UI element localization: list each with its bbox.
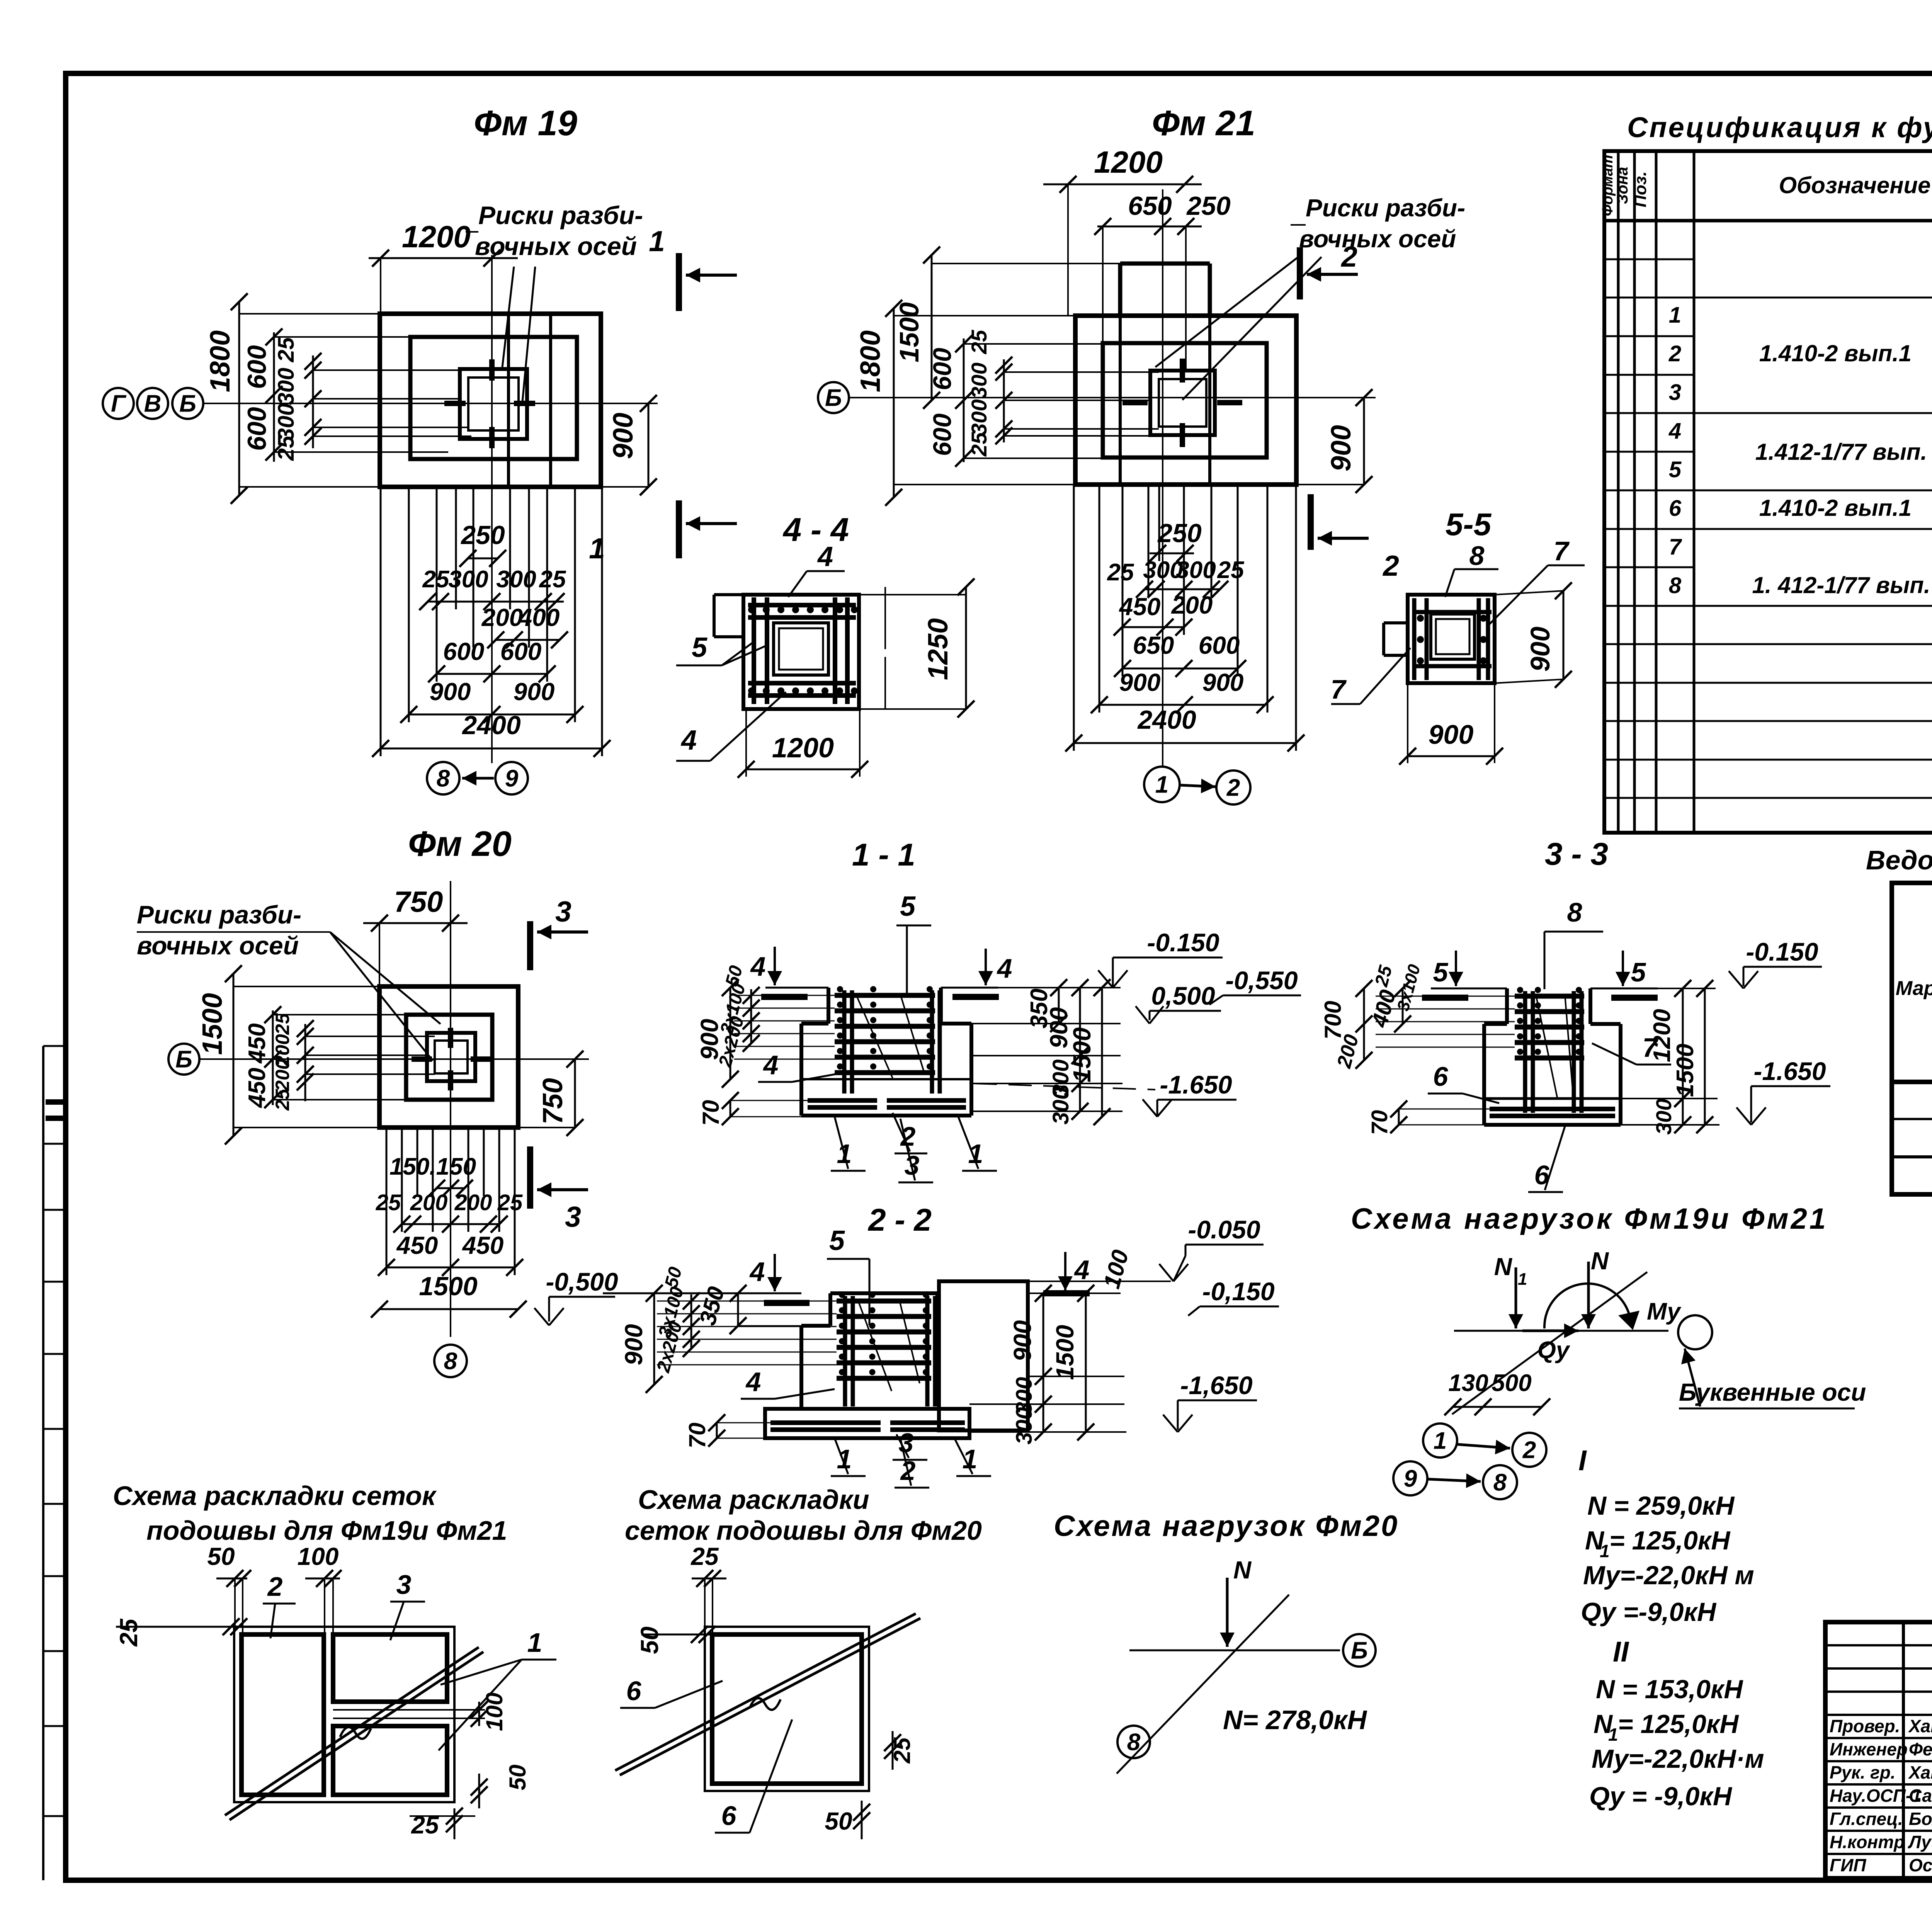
svg-text:600: 600	[500, 638, 542, 665]
Fm21 dim 25 300 300 25 chain left	[1003, 359, 1005, 442]
3-3 mesh extension lines left	[1376, 996, 1515, 997]
svg-text:25: 25	[539, 566, 566, 593]
steel table outer	[1892, 883, 1932, 1194]
Fm20 section flag 3 top	[527, 921, 533, 970]
2-2 right dim 1500	[1085, 1293, 1087, 1432]
svg-text:Г: Г	[111, 391, 127, 417]
svg-text:600: 600	[443, 638, 485, 665]
Fm19 lower extension lines	[380, 487, 382, 756]
svg-text:Инженер: Инженер	[1830, 1739, 1908, 1759]
3-3 ground line right	[1590, 988, 1658, 990]
svg-text:450: 450	[1119, 593, 1161, 621]
Fm20 dim 1500	[379, 1308, 518, 1310]
svg-text:Qy: Qy	[1537, 1337, 1571, 1364]
svg-text:1: 1	[1669, 303, 1681, 328]
svg-text:300: 300	[967, 362, 991, 398]
svg-text:Бояриченко: Бояриченко	[1909, 1809, 1932, 1829]
svg-text:4: 4	[750, 951, 766, 981]
Fm20 column square inner	[435, 1041, 468, 1073]
svg-text:300: 300	[496, 566, 536, 593]
svg-text:Луценко: Луценко	[1908, 1832, 1932, 1852]
svg-text:-0.150: -0.150	[1147, 928, 1219, 957]
3-3 right dim 300 1500	[1682, 1099, 1684, 1125]
Fm21 pedestal protrusion rect	[1120, 262, 1210, 266]
svg-text:Б: Б	[175, 1046, 192, 1073]
Fm19 axis bubbles	[103, 388, 134, 419]
Fm20 dim 450 450	[386, 1267, 515, 1269]
Fm19 step vertical lines	[507, 314, 510, 487]
Fm21 view circles 1 2	[1144, 767, 1180, 802]
svg-text:1500: 1500	[419, 1272, 477, 1301]
Fm21 dim 1200 top	[1043, 184, 1202, 185]
4-4 dim 1200 bottom	[746, 769, 860, 770]
svg-text:3: 3	[1669, 380, 1681, 405]
Fm19 footing outer rect	[380, 314, 601, 487]
2-2 left dim 70	[716, 1423, 718, 1438]
Fm19 riski leaders	[502, 267, 514, 367]
svg-text:100: 100	[298, 1543, 339, 1570]
svg-text:50: 50	[207, 1543, 235, 1570]
1-1 left chain 2x200 3x100 50	[750, 989, 752, 1043]
Fm21 column square outer	[1150, 371, 1215, 435]
svg-text:25: 25	[1107, 559, 1134, 586]
loads scheme N1 arrow	[1515, 1267, 1517, 1328]
svg-text:7: 7	[1331, 674, 1347, 704]
svg-text:= 125,0кН: = 125,0кН	[1618, 1709, 1739, 1739]
svg-text:900: 900	[1525, 627, 1555, 672]
svg-text:250: 250	[1157, 519, 1202, 548]
svg-text:5: 5	[692, 632, 707, 663]
svg-text:6: 6	[1669, 496, 1682, 521]
1-1 right dim 350	[1058, 988, 1060, 1024]
svg-text:1500: 1500	[1672, 1044, 1699, 1097]
Fm20 dim 750 right	[574, 1059, 576, 1128]
Fm21 dim 250	[1150, 553, 1194, 554]
Fm20 horizontal axis	[199, 1058, 589, 1060]
svg-text:1500: 1500	[1068, 1027, 1096, 1082]
svg-text:6: 6	[626, 1676, 642, 1706]
2-2 attached block	[939, 1281, 1028, 1430]
svg-text:1: 1	[1434, 1428, 1447, 1454]
svg-text:Поз.: Поз.	[1631, 171, 1650, 207]
Fm20 riski leaders	[330, 932, 440, 1024]
svg-text:25: 25	[497, 1190, 523, 1215]
svg-text:1: 1	[1518, 1270, 1527, 1289]
svg-text:750: 750	[537, 1078, 568, 1124]
svg-text:5: 5	[900, 891, 916, 922]
svg-text:Фм 20: Фм 20	[408, 824, 512, 864]
svg-text:Qy =-9,0кН: Qy =-9,0кН	[1581, 1597, 1717, 1627]
Fm21 dim 900 900	[1099, 704, 1265, 706]
3-3 right dim 1200	[1682, 988, 1684, 1099]
1-1 pedestal outline	[827, 988, 830, 1024]
svg-text:50: 50	[636, 1626, 663, 1654]
svg-text:450: 450	[462, 1231, 504, 1259]
svg-text:7: 7	[1669, 534, 1682, 560]
svg-text:Формат: Формат	[1600, 155, 1616, 216]
svg-text:25: 25	[967, 330, 991, 354]
svg-text:8: 8	[1493, 1469, 1507, 1496]
svg-text:Осташевский: Осташевский	[1909, 1855, 1932, 1875]
svg-text:ГИП: ГИП	[1830, 1855, 1866, 1875]
svg-text:1: 1	[649, 225, 665, 257]
svg-text:Схема раскладки: Схема раскладки	[638, 1485, 869, 1515]
1-1 right dim 1500	[1101, 988, 1103, 1117]
loads scheme 20 circle B	[1343, 1634, 1376, 1667]
Fm19 section flag 1 bottom	[676, 500, 682, 558]
svg-text:750: 750	[394, 886, 443, 918]
svg-text:25: 25	[967, 432, 991, 457]
svg-text:1200: 1200	[1649, 1009, 1675, 1062]
Fm21 vertical axis	[1162, 189, 1163, 767]
mesh19 mesh 2 rect	[241, 1634, 324, 1795]
svg-text:4: 4	[763, 1050, 779, 1080]
Fm19 dim 250	[468, 558, 498, 560]
svg-text:0,500: 0,500	[1151, 981, 1215, 1010]
svg-text:Ханин: Ханин	[1908, 1716, 1932, 1736]
svg-text:N= 278,0кН: N= 278,0кН	[1223, 1705, 1367, 1735]
Fm21 dim 1500 left	[931, 255, 933, 400]
svg-text:-1.650: -1.650	[1160, 1070, 1232, 1099]
svg-text:25: 25	[272, 1013, 293, 1035]
svg-text:25: 25	[274, 435, 299, 461]
view circles 1-2 9-8	[1423, 1423, 1457, 1458]
Fm20 column centre ticks	[412, 1056, 432, 1062]
svg-text:N: N	[1591, 1247, 1609, 1275]
Fm19 dim 1200 top	[369, 257, 518, 259]
svg-text:-0.050: -0.050	[1188, 1215, 1260, 1244]
svg-text:Ханин: Ханин	[1908, 1762, 1932, 1782]
svg-text:2400: 2400	[1137, 705, 1196, 735]
svg-text:200: 200	[272, 1059, 293, 1092]
2-2 footing outline	[801, 1324, 830, 1328]
2-2 right dim 900 300 300	[1043, 1293, 1044, 1432]
2-2 right extensions	[1028, 1293, 1121, 1294]
svg-text:4: 4	[817, 541, 833, 572]
svg-text:600: 600	[928, 413, 956, 456]
svg-text:900: 900	[1429, 719, 1474, 750]
svg-text:600: 600	[242, 407, 272, 451]
1-1 mesh extension lines left	[734, 995, 835, 996]
svg-text:-0,150: -0,150	[1202, 1277, 1274, 1306]
svg-text:300: 300	[1048, 1087, 1073, 1125]
Fm21 dim 600 600 left	[963, 338, 965, 462]
svg-text:25: 25	[1217, 557, 1245, 583]
svg-text:1: 1	[527, 1628, 543, 1658]
Fm20 vertical axis	[450, 881, 451, 1337]
1-1 left dim 70	[730, 1100, 731, 1117]
svg-text:1250: 1250	[923, 618, 954, 680]
svg-text:1: 1	[1155, 772, 1168, 798]
svg-text:подошвы для Фм19и Фм21: подошвы для Фм19и Фм21	[146, 1515, 507, 1546]
svg-text:1: 1	[1600, 1541, 1610, 1561]
svg-text:900: 900	[1009, 1320, 1036, 1362]
svg-text:300: 300	[448, 566, 488, 593]
svg-text:600: 600	[1199, 631, 1240, 659]
svg-text:-0,550: -0,550	[1225, 966, 1298, 995]
svg-text:4: 4	[1074, 1255, 1090, 1285]
3-3 ground line left	[1431, 988, 1507, 990]
svg-text:25: 25	[411, 1811, 439, 1839]
title block outer	[1825, 1622, 1932, 1879]
svg-text:200: 200	[410, 1190, 448, 1215]
Fm20 column square outer	[427, 1033, 475, 1081]
Fm19 column square inner	[468, 378, 519, 430]
svg-text:3: 3	[565, 1201, 581, 1233]
svg-text:150.150: 150.150	[389, 1153, 476, 1180]
svg-text:N = 153,0кН: N = 153,0кН	[1596, 1675, 1743, 1704]
svg-text:Б: Б	[179, 391, 196, 417]
svg-text:1 - 1: 1 - 1	[852, 837, 915, 872]
Fm19 dim 25 300 300 25 left chain	[312, 355, 314, 448]
svg-text:900: 900	[608, 413, 639, 459]
Fm19 vertical axis	[491, 255, 493, 763]
svg-text:II: II	[1613, 1636, 1629, 1668]
svg-text:1800: 1800	[205, 330, 236, 392]
Fm20 footing outer square	[379, 986, 518, 1128]
svg-text:Н.контр: Н.контр	[1830, 1832, 1905, 1852]
loads scheme 19-21 slanted axis	[1452, 1272, 1647, 1414]
svg-text:650: 650	[1128, 191, 1172, 221]
svg-text:200: 200	[454, 1190, 492, 1215]
svg-text:Провер.: Провер.	[1830, 1716, 1900, 1736]
svg-text:70: 70	[1367, 1110, 1392, 1135]
mesh19 mesh lower right rect	[333, 1726, 447, 1795]
Fm19 column square outer	[460, 369, 527, 439]
Fm19 horizontal axis	[203, 403, 658, 404]
4-4 rebar vertical bars	[752, 597, 756, 704]
svg-text:450: 450	[244, 1068, 270, 1108]
svg-text:130: 130	[1448, 1370, 1488, 1396]
5-5 dim 900 right	[1563, 591, 1565, 679]
svg-text:2: 2	[1668, 341, 1681, 366]
Fm19 column centre tick marks	[444, 401, 466, 406]
svg-text:9: 9	[505, 765, 519, 792]
svg-text:25: 25	[422, 566, 450, 593]
1-1 rebar cage	[835, 993, 935, 998]
svg-text:500: 500	[1492, 1370, 1531, 1396]
svg-text:6: 6	[1433, 1061, 1449, 1092]
svg-text:Схема нагрузок Фм19и Фм21: Схема нагрузок Фм19и Фм21	[1351, 1202, 1828, 1235]
svg-text:Му=-22,0кН·м: Му=-22,0кН·м	[1592, 1744, 1764, 1774]
svg-text:300: 300	[1012, 1407, 1037, 1445]
svg-text:-1,650: -1,650	[1180, 1371, 1252, 1400]
svg-text:300: 300	[274, 368, 299, 405]
svg-text:25: 25	[274, 337, 299, 362]
3-3 right extensions	[1590, 988, 1716, 989]
svg-text:4 - 4: 4 - 4	[782, 512, 849, 548]
Fm21 dim 450 200	[1122, 626, 1184, 628]
svg-text:Рук. гр.: Рук. гр.	[1830, 1762, 1896, 1782]
svg-text:300: 300	[967, 399, 991, 435]
svg-text:Ведомость расхода стали на эле: Ведомость расхода стали на элемент, кг	[1866, 845, 1932, 875]
svg-text:Марка элемента: Марка элемента	[1896, 977, 1932, 1000]
svg-text:600: 600	[928, 348, 956, 390]
spec table row lines	[1604, 259, 1694, 260]
svg-text:2: 2	[1226, 775, 1240, 801]
svg-text:8: 8	[444, 1348, 457, 1375]
svg-text:Му=-22,0кН м: Му=-22,0кН м	[1583, 1561, 1754, 1590]
Fm21 step vertical lines	[1119, 316, 1122, 485]
svg-text:250: 250	[1186, 191, 1231, 221]
svg-text:-0,500: -0,500	[546, 1267, 618, 1296]
Fm19 dim 200 400	[496, 639, 560, 641]
2-2 mesh extension lines left	[657, 1301, 837, 1302]
svg-text:1. 412-1/77 вып. 3: 1. 412-1/77 вып. 3	[1752, 572, 1932, 598]
svg-text:I: I	[1578, 1444, 1587, 1476]
1-1 sole mesh lines	[808, 1098, 877, 1103]
Fm20 dim 25 200 200 25 chain left	[304, 1024, 306, 1101]
3-3 sole slab	[1482, 1099, 1486, 1125]
svg-text:300: 300	[1176, 557, 1216, 583]
spec table outer border	[1604, 151, 1932, 833]
svg-text:Б: Б	[1351, 1638, 1368, 1664]
svg-text:1500: 1500	[197, 993, 228, 1055]
svg-text:N = 259,0кН: N = 259,0кН	[1587, 1491, 1735, 1520]
svg-text:8: 8	[1567, 897, 1582, 927]
1-1 footing outline	[801, 1022, 828, 1026]
mesh19 outer rect	[234, 1627, 454, 1802]
svg-text:2: 2	[1382, 549, 1399, 582]
svg-text:В: В	[144, 391, 162, 417]
svg-text:вочных осей: вочных осей	[1299, 225, 1456, 253]
svg-text:Му: Му	[1647, 1298, 1682, 1325]
Fm20 dim 150 150	[437, 1187, 464, 1189]
Fm21 dim 650 600	[1122, 668, 1238, 670]
svg-text:5-5: 5-5	[1446, 507, 1492, 542]
svg-text:5: 5	[1433, 957, 1449, 987]
svg-text:300: 300	[274, 403, 299, 441]
spec table header bottom	[1604, 219, 1932, 223]
loads scheme N arrow	[1587, 1262, 1590, 1328]
svg-text:7: 7	[1554, 536, 1570, 566]
Fm19 dim chain 25 300 300 25	[428, 601, 564, 603]
4-4 rebar horizontal bars	[748, 603, 856, 607]
2-2 rebar cage	[837, 1299, 931, 1304]
svg-text:Федотова: Федотова	[1909, 1739, 1932, 1759]
3-3 sole mesh lines	[1490, 1107, 1615, 1111]
5-5 rebar bars	[1412, 610, 1492, 614]
svg-text:Фм 21: Фм 21	[1152, 104, 1255, 143]
Fm19 section flag 1 top	[676, 253, 682, 311]
svg-text:900: 900	[1326, 425, 1357, 471]
svg-text:2400: 2400	[461, 711, 520, 740]
1-1 dashed level line	[974, 1083, 1155, 1090]
loads scheme My curved arrow	[1544, 1284, 1631, 1328]
1-1 left dim 900	[730, 988, 731, 1079]
1-1 slab top line	[801, 1078, 971, 1080]
2-2 ground line left	[603, 1293, 801, 1294]
4-4 left flange	[714, 593, 743, 596]
mesh19 mesh 3 rect	[333, 1634, 447, 1702]
svg-text:50: 50	[825, 1807, 852, 1835]
Fm20 dim 750 top	[363, 922, 468, 924]
svg-text:900: 900	[430, 678, 471, 706]
svg-text:250: 250	[460, 520, 505, 550]
4-4 rebar dots top	[748, 606, 755, 613]
5-5 left flange	[1384, 621, 1408, 624]
Fm20 dim 450 450 left	[272, 1010, 274, 1105]
steel table thick line under header	[1892, 1080, 1932, 1084]
3-3 pedestal outline	[1505, 988, 1509, 1024]
svg-text:5: 5	[1669, 457, 1682, 482]
svg-text:Риски разби-: Риски разби-	[1306, 194, 1465, 222]
Fm21 section flag 2 top	[1297, 247, 1303, 299]
mesh19 break squiggle	[340, 1727, 371, 1739]
loads scheme 20 horizontal	[1129, 1650, 1340, 1651]
svg-text:25: 25	[376, 1190, 401, 1215]
svg-text:900: 900	[514, 678, 555, 706]
1-1 right dim 900 300 300	[1079, 988, 1081, 1111]
svg-text:2: 2	[267, 1571, 283, 1602]
Fm21 lower extension lines	[1073, 485, 1075, 751]
2-2 pedestal outline	[828, 1293, 832, 1326]
Fm21 column square inner	[1159, 379, 1206, 427]
svg-text:25: 25	[115, 1618, 143, 1647]
svg-text:3 - 3: 3 - 3	[1545, 837, 1608, 872]
Fm21 dim 2400	[1074, 742, 1296, 744]
svg-text:70: 70	[698, 1100, 724, 1126]
title block left signature table verticals	[1902, 1622, 1905, 1879]
svg-text:450: 450	[244, 1023, 270, 1064]
Fm20 lower extension lines	[386, 1128, 388, 1275]
3-3 left dim 70	[1398, 1109, 1400, 1125]
3-3 left dims 400 700 200 chain	[1402, 988, 1404, 1024]
steel table data row lines	[1892, 1118, 1932, 1120]
1-1 right extensions	[941, 987, 1121, 988]
Fm20 axis bubble B	[168, 1044, 199, 1075]
Fm20 view circle 8	[434, 1345, 467, 1377]
Fm21 column centre ticks	[1122, 400, 1148, 405]
mesh20 break squiggle	[750, 1698, 781, 1710]
Fm19 dim 2400	[381, 748, 602, 750]
svg-text:Обозначение: Обозначение	[1779, 172, 1930, 198]
svg-text:8: 8	[1669, 573, 1682, 598]
svg-text:1.410-2 вып.1: 1.410-2 вып.1	[1759, 340, 1912, 366]
svg-text:Зона: Зона	[1614, 167, 1631, 204]
svg-text:650: 650	[1133, 631, 1174, 659]
svg-text:Фм 19: Фм 19	[474, 104, 577, 143]
svg-text:6: 6	[1534, 1160, 1550, 1190]
svg-text:4: 4	[680, 725, 697, 756]
5-5 inner void square	[1431, 614, 1475, 659]
svg-text:900: 900	[620, 1324, 648, 1366]
svg-text:4: 4	[1668, 418, 1681, 444]
mesh19 diagonal bar	[225, 1647, 479, 1815]
svg-text:Спецификация к фундаментам: Спецификация к фундаментам Фм19 - Фм21	[1627, 111, 1932, 143]
Fm19 dim 600 600	[437, 673, 547, 675]
loads scheme letter axis circle	[1678, 1315, 1712, 1349]
Fm21 dim 1800 left	[893, 308, 895, 497]
mesh20 outer rect	[705, 1627, 869, 1791]
svg-text:4: 4	[997, 953, 1012, 983]
Fm19 view circles 8 9	[427, 762, 459, 794]
4-4 inner void square	[774, 623, 828, 675]
svg-text:1200: 1200	[772, 733, 834, 764]
Fm21 middle step rect	[1103, 343, 1267, 457]
mesh20 mesh rect	[712, 1634, 862, 1784]
svg-text:1500: 1500	[1051, 1325, 1079, 1380]
Fm21 riski leaders	[1155, 257, 1298, 367]
svg-text:9: 9	[1404, 1466, 1417, 1492]
svg-text:Риски разби-: Риски разби-	[137, 900, 301, 929]
svg-text:6: 6	[721, 1801, 737, 1831]
3-3 footing outline	[1484, 1022, 1507, 1026]
svg-text:Нау.ОСП-1: Нау.ОСП-1	[1830, 1786, 1922, 1806]
svg-text:Схема раскладки сеток: Схема раскладки сеток	[113, 1481, 437, 1511]
svg-text:Гл.спец.: Гл.спец.	[1830, 1809, 1903, 1829]
2-2 left dim 900	[653, 1293, 655, 1384]
